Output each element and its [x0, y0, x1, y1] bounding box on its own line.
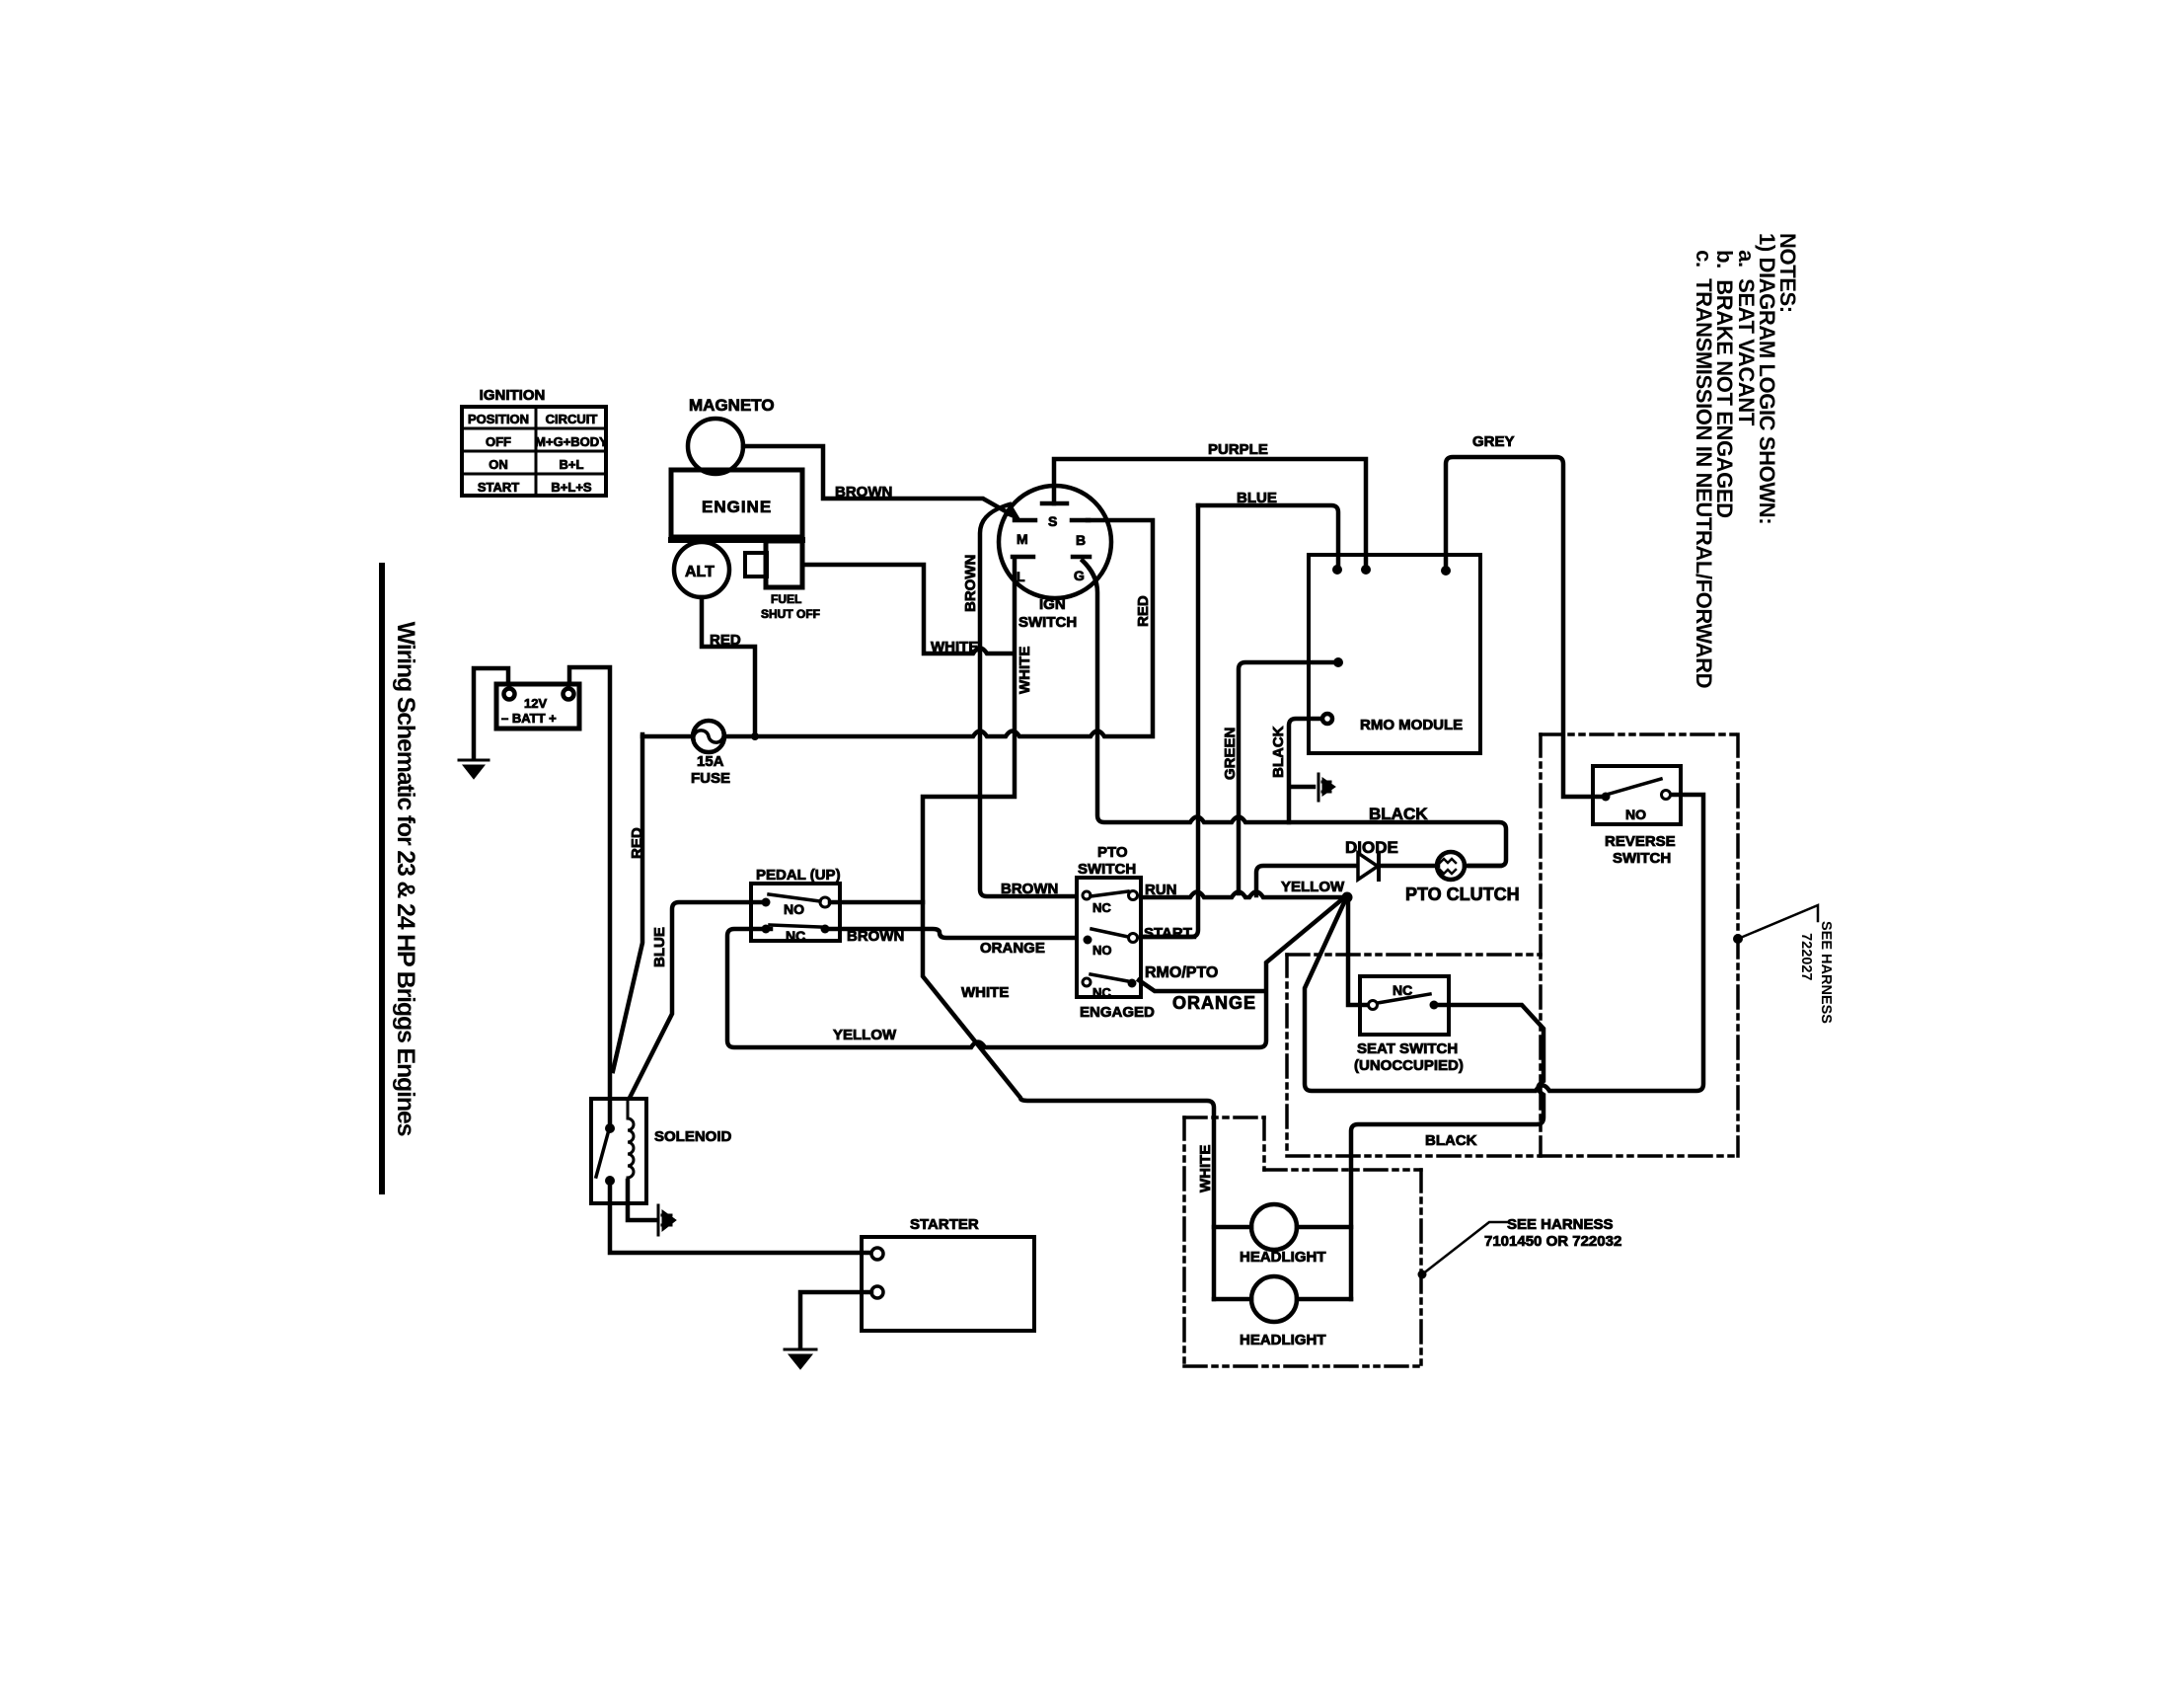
svg-text:HEADLIGHT: HEADLIGHT — [1240, 1249, 1326, 1266]
wire: G terminal down and across (BLACK) to PTO clutch — [1083, 561, 1506, 866]
svg-text:REVERSE: REVERSE — [1605, 833, 1676, 850]
fuel shut off — [745, 541, 820, 621]
svg-text:15A: 15A — [697, 753, 724, 770]
svg-text:GREY: GREY — [1472, 433, 1515, 450]
wire: battery negative to ground — [474, 668, 508, 758]
starter — [862, 1216, 1034, 1331]
svg-text:ON: ON — [489, 457, 508, 472]
pedal (up) switch — [751, 867, 841, 944]
svg-text:OFF: OFF — [486, 434, 511, 449]
ign switch M terminal — [1015, 520, 1035, 547]
wire: BLUE from pedal NO to solenoid coil — [630, 902, 761, 1098]
svg-text:RED: RED — [1135, 595, 1152, 627]
wire: alternator RED down to fuse line — [702, 597, 755, 732]
diode — [1345, 838, 1398, 880]
wire: pedal NO right to white junction — [830, 900, 923, 905]
wire: RED from fuse corner down to solenoid, label RED — [613, 734, 642, 1071]
svg-text:START: START — [1144, 925, 1192, 942]
svg-text:BROWN: BROWN — [1001, 881, 1058, 897]
15A fuse — [691, 721, 730, 787]
pto switch — [1077, 844, 1155, 1021]
ign switch — [999, 486, 1111, 631]
svg-text:SWITCH: SWITCH — [1613, 850, 1671, 867]
seat switch (unoccupied) — [1354, 976, 1464, 1074]
wire: GREY from RMO pin to reverse switch — [1446, 457, 1600, 797]
svg-text:ENGINE: ENGINE — [702, 498, 772, 516]
svg-text:FUEL: FUEL — [771, 592, 801, 606]
svg-text:BLUE: BLUE — [651, 927, 668, 967]
svg-text:CIRCUIT: CIRCUIT — [546, 412, 598, 426]
leader: see harness 722027 — [1733, 905, 1818, 944]
svg-text:WHITE: WHITE — [931, 639, 978, 655]
wire: RMO pin 4 to RUN line — [1239, 662, 1334, 893]
ground (battery) — [459, 760, 489, 779]
svg-text:BLUE: BLUE — [1237, 490, 1277, 506]
wire: START row stub — [1141, 935, 1194, 940]
svg-text:M+G+BODY: M+G+BODY — [535, 434, 608, 449]
svg-text:G: G — [1074, 568, 1085, 583]
svg-text:PTO CLUTCH: PTO CLUTCH — [1405, 884, 1520, 904]
svg-text:NO: NO — [784, 901, 804, 917]
svg-text:B: B — [1076, 532, 1086, 548]
wire: ORANGE from PTO RMO/PTO row to yellow riser — [1139, 980, 1264, 991]
svg-text:NC: NC — [1092, 985, 1111, 1000]
wire: solenoid output to starter — [610, 1181, 871, 1253]
svg-text:BLACK: BLACK — [1369, 805, 1428, 823]
notes block (rotated) — [1694, 233, 1798, 701]
dash-dot harness boundary (headlight region) — [1184, 1117, 1421, 1366]
ignition position/circuit table — [462, 387, 608, 496]
wire: YELLOW from pedal NC left down along bottom and up to junction — [727, 899, 1342, 1047]
svg-text:NC: NC — [786, 928, 805, 944]
wire: BLUE from corner to RMO module pin — [1198, 505, 1338, 564]
svg-text:START: START — [478, 480, 519, 495]
ground (solenoid) — [658, 1205, 676, 1235]
title: Wiring Schematic for 23 & 24 HP Briggs Engines (rotated) — [379, 563, 428, 1194]
svg-text:B+L+S: B+L+S — [551, 480, 592, 495]
svg-text:RMO MODULE: RMO MODULE — [1360, 717, 1463, 733]
svg-text:SWITCH: SWITCH — [1018, 614, 1077, 631]
svg-text:NC: NC — [1393, 982, 1412, 998]
headlight connecting stubs — [1214, 1227, 1351, 1299]
svg-text:ORANGE: ORANGE — [980, 940, 1045, 957]
svg-text:ALT: ALT — [685, 564, 715, 580]
svg-text:SEAT SWITCH: SEAT SWITCH — [1357, 1040, 1458, 1057]
headlight 2 — [1240, 1276, 1326, 1348]
RMO module — [1309, 555, 1480, 753]
ign switch L terminal — [1013, 557, 1033, 584]
wire: yellow junction to reverse switch via bottom run — [1305, 795, 1703, 1091]
yellow junction node — [1342, 892, 1353, 903]
svg-text:– BATT +: – BATT + — [501, 711, 557, 726]
svg-text:BROWN: BROWN — [835, 484, 892, 500]
svg-text:PEDAL (UP): PEDAL (UP) — [756, 867, 841, 884]
svg-text:NO: NO — [1625, 807, 1646, 822]
wire: BLACK from RMO pin 5 to ground stub and black bus — [1289, 719, 1322, 822]
reverse switch — [1593, 766, 1681, 867]
svg-text:BLACK: BLACK — [1270, 726, 1287, 778]
svg-text:HEADLIGHT: HEADLIGHT — [1240, 1332, 1326, 1348]
svg-text:SEE HARNESS: SEE HARNESS — [1507, 1216, 1614, 1233]
battery 12V — [496, 684, 579, 729]
solenoid — [591, 1099, 732, 1203]
svg-text:SHUT OFF: SHUT OFF — [761, 607, 820, 621]
wire: PTO clutch to black bus corner — [1465, 864, 1500, 869]
wire: BLACK from seat switch right down to headlights — [1351, 1005, 1544, 1299]
wire: fuel shut off to white junction, label WHITE — [802, 565, 1011, 654]
ign switch G terminal — [1073, 557, 1090, 583]
label: see harness 722027 (rotated) — [1795, 921, 1835, 1020]
wire: BROWN vertical from engine wire down to PTO switch — [980, 504, 1075, 896]
svg-text:YELLOW: YELLOW — [1281, 879, 1345, 895]
svg-text:BROWN: BROWN — [847, 928, 904, 945]
svg-text:RED: RED — [710, 632, 741, 649]
svg-text:M: M — [1017, 531, 1028, 547]
svg-text:(UNOCCUPIED): (UNOCCUPIED) — [1354, 1057, 1464, 1074]
alternator ALT — [674, 542, 729, 597]
svg-text:PURPLE: PURPLE — [1208, 441, 1268, 458]
svg-text:S: S — [1048, 513, 1057, 529]
svg-text:NC: NC — [1092, 900, 1111, 915]
svg-text:YELLOW: YELLOW — [833, 1027, 897, 1043]
svg-text:GREEN: GREEN — [1222, 728, 1239, 780]
svg-text:STARTER: STARTER — [910, 1216, 979, 1233]
svg-text:B+L: B+L — [560, 457, 584, 472]
wire: main battery/fuse power line to ign switch B terminal (RED riser) — [642, 520, 1153, 736]
wire: RUN row to yellow junction — [1141, 892, 1342, 898]
engine — [671, 470, 802, 540]
svg-text:L: L — [1017, 569, 1025, 584]
svg-text:SOLENOID: SOLENOID — [654, 1128, 732, 1145]
wire: ORANGE from pedal NC right to PTO switch NO, label BROWN — [830, 929, 1075, 938]
svg-text:RED: RED — [629, 827, 645, 859]
ground (RMO module) — [1318, 774, 1335, 801]
svg-text:ENGAGED: ENGAGED — [1080, 1004, 1155, 1021]
svg-text:ORANGE: ORANGE — [1172, 993, 1256, 1013]
wire: diode to PTO clutch — [1379, 864, 1438, 869]
wire: battery positive down to solenoid — [569, 667, 610, 1128]
headlight 1 — [1240, 1204, 1326, 1266]
svg-text:RMO/PTO: RMO/PTO — [1145, 964, 1218, 981]
ground (starter) — [785, 1349, 816, 1369]
svg-text:BROWN: BROWN — [962, 555, 979, 612]
wire: solenoid coil to ground — [628, 1181, 655, 1220]
svg-text:FUSE: FUSE — [691, 770, 730, 787]
wire: WHITE from ign switch L down through pedal junction to headlights — [923, 559, 1214, 1299]
leader: see harness 7101450 — [1418, 1216, 1622, 1279]
svg-text:DIODE: DIODE — [1345, 838, 1398, 857]
pto clutch — [1405, 852, 1520, 904]
svg-text:7101450 OR 722032: 7101450 OR 722032 — [1484, 1233, 1621, 1250]
svg-text:NO: NO — [1092, 943, 1112, 958]
svg-text:IGNITION: IGNITION — [480, 387, 546, 404]
wire: starter to ground — [800, 1292, 871, 1346]
ign switch B terminal — [1072, 520, 1089, 548]
svg-text:12V: 12V — [524, 696, 547, 711]
svg-text:WHITE: WHITE — [1017, 647, 1033, 694]
magneto — [688, 396, 775, 474]
dash-dot harness boundary (reverse/seat region) — [1287, 734, 1738, 1156]
wire: yellow junction down to seat switch — [1348, 897, 1369, 1005]
wire: diode feed from RUN line — [1256, 866, 1356, 895]
svg-text:BLACK: BLACK — [1425, 1132, 1477, 1149]
svg-text:POSITION: POSITION — [468, 412, 529, 426]
svg-text:WHITE: WHITE — [961, 984, 1009, 1001]
svg-text:IGN: IGN — [1039, 596, 1066, 613]
svg-text:SWITCH: SWITCH — [1078, 861, 1136, 878]
ign switch S terminal — [1042, 503, 1067, 529]
svg-text:PTO: PTO — [1097, 844, 1128, 861]
wire: magneto to ign switch M terminal (BROWN) with arrowhead — [743, 446, 1013, 515]
svg-text:WHITE: WHITE — [1197, 1145, 1214, 1192]
svg-text:MAGNETO: MAGNETO — [689, 396, 775, 415]
wire: GREEN vertical down to PTO switch START row — [1143, 505, 1198, 937]
wire: PURPLE from S terminal to RMO module — [1054, 459, 1366, 565]
